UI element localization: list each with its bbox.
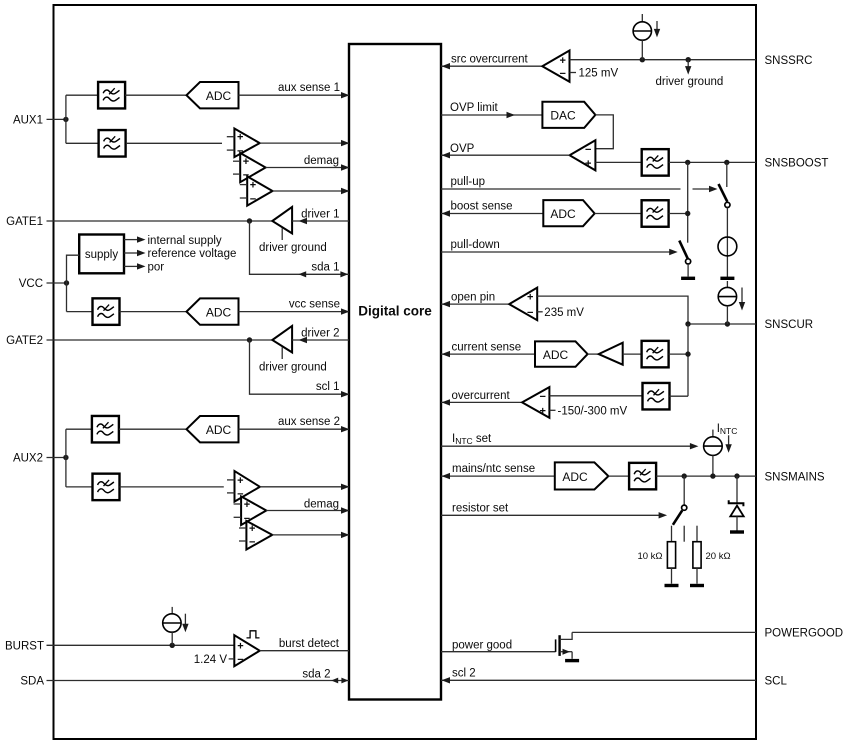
driver U3 (driver 2) <box>272 326 292 359</box>
pin GATE1 <box>6 216 272 228</box>
resistor R2 20k <box>690 542 704 586</box>
svg-text:overcurrent: overcurrent <box>452 390 511 402</box>
wire burst detect to core <box>260 650 349 652</box>
arrow current sense into core <box>442 351 451 357</box>
arrow pull-up to switch <box>693 186 718 192</box>
node BURST junction <box>170 643 175 648</box>
svg-text:pull-up: pull-up <box>451 176 486 188</box>
wire F3 to ADC2 <box>120 311 187 313</box>
arrow INTC set <box>690 443 699 449</box>
node GATE2 junction <box>247 337 252 342</box>
wire demag4 out <box>260 486 349 488</box>
wire F1 to ADC1 <box>125 94 186 96</box>
op-amp ADC1 (aux sense 1) <box>187 82 239 108</box>
wire open pin to core <box>441 303 509 305</box>
svg-text:+: + <box>244 499 250 511</box>
svg-text:ADC: ADC <box>206 305 232 319</box>
wire INTC set from core <box>441 445 691 447</box>
svg-text:mains/ntc sense: mains/ntc sense <box>452 463 535 475</box>
filter F10 (mains/ntc) <box>629 463 656 490</box>
wire current sense to core <box>441 353 535 355</box>
wire F2 to comparator stack <box>126 142 222 144</box>
wire ADC6 to filter F10 <box>608 475 629 477</box>
svg-text:SNSSRC: SNSSRC <box>765 55 813 67</box>
node AUX1 junction <box>63 117 68 122</box>
wire open pin plus input <box>537 296 688 324</box>
filter F8 (current sense) <box>642 341 669 368</box>
filter F2 (demag 1) <box>99 130 126 157</box>
svg-text:SNSMAINS: SNSMAINS <box>765 471 825 483</box>
svg-text:driver ground: driver ground <box>656 76 724 88</box>
arrow pull-down to switch <box>669 249 678 255</box>
svg-text:demag: demag <box>304 155 339 167</box>
svg-text:SNSCUR: SNSCUR <box>765 319 814 331</box>
svg-text:−: − <box>237 654 243 666</box>
arrow current direction I5 <box>725 435 731 452</box>
comparator U10 overcurrent <box>522 387 555 418</box>
pin AUX1 <box>13 114 66 126</box>
svg-text:aux sense 2: aux sense 2 <box>278 416 340 428</box>
wire VCC bus <box>67 255 80 311</box>
wire pull-down from core <box>441 251 670 253</box>
svg-text:por: por <box>148 262 165 274</box>
svg-text:src overcurrent: src overcurrent <box>451 54 528 66</box>
svg-text:+: + <box>527 291 533 303</box>
wire demag5 out <box>266 510 349 512</box>
switch S1 (pull-up) <box>719 162 731 207</box>
switch S2 (pull-down) <box>679 241 690 277</box>
arrow scl1 into core <box>341 391 350 397</box>
svg-text:20 kΩ: 20 kΩ <box>706 551 731 562</box>
comparator U7 OVP <box>570 140 596 170</box>
arrow aux sense 1 into core <box>341 92 350 98</box>
node current sense junction <box>685 351 690 356</box>
svg-text:SDA: SDA <box>20 676 44 688</box>
svg-text:power good: power good <box>452 639 512 651</box>
filter F6 (SNSBOOST) <box>642 149 669 176</box>
comparator Q2 demag stack 2 <box>233 153 266 182</box>
svg-text:ADC: ADC <box>206 89 232 103</box>
svg-text:INTC: INTC <box>717 423 738 436</box>
arrow current direction I4 <box>739 288 745 311</box>
svg-text:ADC: ADC <box>543 348 569 362</box>
wire driver 2 from core <box>292 339 349 341</box>
node SNSSRC junction 2 <box>686 57 691 62</box>
wire aux sense 1 to core <box>239 94 350 96</box>
wire pull-up from core <box>441 188 681 190</box>
wire F8 to chain <box>669 353 688 355</box>
arrow mains/ntc sense into core <box>442 473 451 479</box>
supply block <box>79 235 124 274</box>
node SNSMAINS junction 1 <box>682 473 687 478</box>
svg-text:GATE1: GATE1 <box>6 216 43 228</box>
wire sda 1 <box>250 221 350 274</box>
svg-text:INTC set: INTC set <box>452 433 492 446</box>
filter F7 (boost sense) <box>642 200 669 227</box>
arrow driver 1 <box>299 218 308 224</box>
wire driver 1 from core <box>292 220 349 222</box>
arrow open pin into core <box>442 301 451 307</box>
arrow demag4 into core <box>341 484 350 490</box>
pin AUX2 <box>13 453 66 465</box>
wire OVP to core <box>441 154 570 156</box>
arrow OVP into core <box>442 152 451 158</box>
filter F5 (demag 2) <box>93 474 120 501</box>
svg-text:sda 2: sda 2 <box>302 668 330 680</box>
wire SNSCUR chain vertical <box>687 324 689 396</box>
svg-text:+: + <box>237 132 243 144</box>
node VCC junction <box>64 280 69 285</box>
svg-text:VCC: VCC <box>19 278 43 290</box>
svg-text:1.24 V: 1.24 V <box>194 654 228 666</box>
svg-text:+: + <box>585 158 591 170</box>
svg-text:−: − <box>249 537 255 549</box>
svg-text:driver ground: driver ground <box>259 242 327 254</box>
svg-text:BURST: BURST <box>5 641 44 653</box>
filter F3 (vcc sense) <box>93 298 120 325</box>
svg-text:Digital core: Digital core <box>358 304 432 319</box>
arrow scl2 into core <box>442 677 451 683</box>
svg-text:boost sense: boost sense <box>451 201 513 213</box>
op-amp ADC2 (vcc sense) <box>187 298 239 324</box>
arrow sda2 right head <box>341 678 348 684</box>
current source I5 (INTC) <box>704 430 723 477</box>
wire SNSBOOST <box>669 161 756 163</box>
svg-text:current sense: current sense <box>452 341 522 353</box>
svg-text:−: − <box>585 144 591 156</box>
arrow demag3 into core <box>341 188 350 194</box>
wire AUX1 bus <box>65 95 67 143</box>
svg-text:+: + <box>250 180 256 192</box>
current source I1 (burst) <box>163 607 181 645</box>
switch S3 (resistor set) <box>673 476 687 525</box>
arrow demag6 into core <box>341 532 350 538</box>
wire demag1 out <box>260 142 349 144</box>
svg-text:supply: supply <box>85 249 118 261</box>
arrow demag2 into core <box>341 164 350 170</box>
node boost sense junction <box>685 211 690 216</box>
wire resistor throw stubs <box>672 526 698 542</box>
svg-text:demag: demag <box>304 498 339 510</box>
wire boost chain vertical <box>687 162 689 242</box>
svg-text:scl 2: scl 2 <box>452 667 476 679</box>
arrow current direction I2 <box>654 21 660 37</box>
svg-text:SCL: SCL <box>765 676 788 688</box>
svg-text:POWERGOOD: POWERGOOD <box>765 628 844 640</box>
svg-text:−: − <box>540 391 546 403</box>
svg-text:ADC: ADC <box>562 470 588 484</box>
buffer U9 (current sense) <box>599 343 623 365</box>
wire SNSCUR <box>688 323 756 325</box>
wire AUX1 to filter F1 <box>66 94 98 96</box>
wire mains/ntc sense to core <box>441 475 555 477</box>
comparator Q4 demag stack 4 <box>227 471 260 502</box>
arrow demag1 into core <box>341 140 350 146</box>
wire F4 to ADC3 <box>119 428 187 430</box>
comparator U5 src overcurrent <box>542 51 576 82</box>
wire boost sense to core <box>441 213 543 215</box>
wire buffer to filter F8 <box>623 353 642 355</box>
svg-text:+: + <box>540 406 546 418</box>
current source I2 (SNSSRC) <box>633 14 651 60</box>
op-amp ADC3 (aux sense 2) <box>187 416 239 442</box>
svg-text:ADC: ADC <box>206 423 232 437</box>
wire AUX2 to filter F5 <box>66 486 93 488</box>
current source I3 (pull-up) <box>718 208 737 278</box>
wire aux sense 2 to core <box>239 428 350 430</box>
wire SNSSRC <box>570 59 757 61</box>
wire overcurrent to core <box>441 401 522 403</box>
svg-text:SNSBOOST: SNSBOOST <box>765 158 829 170</box>
node SNSCUR junction 2 <box>725 321 730 326</box>
node GATE1 junction <box>247 218 252 223</box>
wire src overcurrent to core <box>441 65 542 67</box>
comparator U8 open pin <box>509 288 543 321</box>
arrow sda1 left head <box>298 271 306 277</box>
svg-text:aux sense 1: aux sense 1 <box>278 82 340 94</box>
wire demag3 out <box>273 190 350 192</box>
pin GATE2 <box>6 335 272 347</box>
wire AUX2 to filter F4 <box>66 428 92 430</box>
arrow driver ground (SNSSRC) <box>685 60 691 75</box>
ground (pull-down branch) <box>681 277 695 280</box>
wire F5 to comparator stack <box>120 486 224 488</box>
svg-text:OVP limit: OVP limit <box>450 102 499 114</box>
svg-text:driver 1: driver 1 <box>301 209 339 221</box>
arrow current direction I1 <box>182 614 188 633</box>
svg-text:internal supply: internal supply <box>148 235 222 247</box>
svg-text:−: − <box>560 68 566 80</box>
wire reference voltage <box>124 252 138 254</box>
svg-text:AUX2: AUX2 <box>13 453 43 465</box>
comparator Q3 demag stack 3 <box>240 176 273 205</box>
svg-text:125 mV: 125 mV <box>579 68 619 80</box>
wire SNSMAINS <box>656 475 756 477</box>
svg-text:10 kΩ: 10 kΩ <box>637 551 662 562</box>
comparator Q6 demag stack 6 <box>239 521 272 550</box>
wire por <box>124 265 138 267</box>
svg-text:driver 2: driver 2 <box>301 328 339 340</box>
wire scl 1 <box>250 340 350 394</box>
svg-text:DAC: DAC <box>550 109 576 123</box>
svg-text:+: + <box>237 475 243 487</box>
driver U2 (driver 1) <box>272 207 292 240</box>
arrow boost sense into core <box>442 210 451 216</box>
current source I4 (SNSCUR) <box>718 281 736 324</box>
node SNSMAINS junction 2 <box>710 473 715 478</box>
svg-text:pull-down: pull-down <box>451 239 500 251</box>
wire power good from core <box>441 651 556 653</box>
wire AUX2 bus <box>65 429 67 487</box>
arrow OVP limit <box>507 112 516 118</box>
svg-text:open pin: open pin <box>451 291 495 303</box>
wire F9 to chain <box>670 395 689 397</box>
wire OVP comp plus input <box>595 161 641 163</box>
arrow src overcurrent into core <box>442 63 451 69</box>
wire ADC5 to buffer <box>588 353 599 355</box>
comparator Q1 demag stack 1 <box>227 129 260 158</box>
svg-text:ADC: ADC <box>550 207 576 221</box>
comparator U4 burst detect <box>229 635 260 666</box>
wire resistor set from core <box>441 514 660 516</box>
node SNSBOOST junction 2 <box>724 160 729 165</box>
wire OVP limit from core <box>441 114 542 116</box>
wire demag2 out <box>266 167 349 169</box>
digital core block U1 <box>349 44 441 700</box>
transistor Q7 powergood nmos <box>556 632 580 660</box>
op-amp ADC5 (current sense) <box>535 341 588 366</box>
arrow sda2 left head <box>331 678 338 684</box>
arrow por <box>137 263 146 269</box>
svg-text:+: + <box>237 640 243 652</box>
arrow demag5 into core <box>341 507 350 513</box>
svg-text:−: − <box>250 194 256 206</box>
arrow aux sense 2 into core <box>341 426 350 432</box>
node SNSSRC junction 1 <box>640 57 645 62</box>
op-amp ADC6 (mains/ntc sense) <box>555 462 609 489</box>
arrow sda1 right head <box>340 271 348 277</box>
arrow resistor set <box>659 512 668 518</box>
wire SCL <box>441 679 756 681</box>
ground (pull-up branch) <box>720 277 734 280</box>
pin VCC <box>19 278 67 290</box>
op-amp ADC4 (boost sense) <box>543 200 594 226</box>
wire POWERGOOD <box>572 631 756 633</box>
wire VCC to filter F3 <box>67 311 93 313</box>
node SNSCUR junction 1 <box>685 321 690 326</box>
svg-text:+: + <box>560 55 566 67</box>
pin BURST <box>5 641 234 653</box>
svg-text:+: + <box>249 523 255 535</box>
svg-text:-150/-300 mV: -150/-300 mV <box>558 405 628 417</box>
resistor R1 10k <box>665 542 679 586</box>
pin SDA <box>20 676 349 688</box>
filter F9 (overcurrent) <box>643 383 670 410</box>
wire DAC to OVP comparator <box>595 115 613 149</box>
wire demag6 out <box>272 534 349 536</box>
pulse symbol <box>247 631 260 638</box>
svg-text:burst detect: burst detect <box>279 638 340 650</box>
svg-text:AUX1: AUX1 <box>13 114 43 126</box>
arrow internal supply <box>137 236 146 242</box>
wire F7 to chain <box>669 213 688 215</box>
arrow reference voltage <box>137 250 146 256</box>
arrow overcurrent into core <box>442 399 451 405</box>
node SNSBOOST junction 1 <box>685 160 690 165</box>
arrow driver 2 <box>299 337 308 343</box>
svg-text:vcc sense: vcc sense <box>289 298 340 310</box>
svg-text:OVP: OVP <box>450 143 475 155</box>
svg-text:reference voltage: reference voltage <box>148 248 237 260</box>
wire overcurrent minus input <box>549 395 643 397</box>
DAC U6 <box>542 102 595 128</box>
svg-text:scl 1: scl 1 <box>316 381 340 393</box>
arrow vcc sense into core <box>341 308 350 314</box>
node SNSMAINS junction 3 <box>734 473 739 478</box>
svg-text:resistor set: resistor set <box>452 502 509 514</box>
comparator Q5 demag stack 5 <box>234 496 267 525</box>
svg-text:235 mV: 235 mV <box>544 307 584 319</box>
wire ADC4 to filter F7 <box>595 213 642 215</box>
svg-text:−: − <box>527 307 533 319</box>
filter F4 (aux sense 2) <box>92 416 119 443</box>
svg-text:GATE2: GATE2 <box>6 335 43 347</box>
wire vcc sense to core <box>239 311 350 313</box>
svg-text:+: + <box>243 156 249 168</box>
wire AUX1 to filter F2 <box>66 142 98 144</box>
svg-text:driver ground: driver ground <box>259 362 327 374</box>
svg-text:sda 1: sda 1 <box>311 261 339 273</box>
filter F1 (aux sense 1) <box>98 82 125 109</box>
node AUX2 junction <box>63 455 68 460</box>
wire internal supply <box>124 239 138 241</box>
zener diode D1 <box>729 476 744 532</box>
